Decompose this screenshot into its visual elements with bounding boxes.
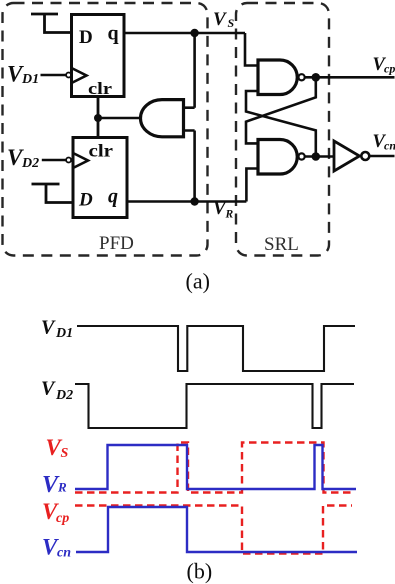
svg-text:D1: D1 xyxy=(21,72,39,87)
svg-text:clr: clr xyxy=(88,79,112,98)
svg-text:R: R xyxy=(225,209,234,221)
svg-text:V: V xyxy=(213,9,227,30)
svg-text:clr: clr xyxy=(89,141,114,161)
svg-text:(b): (b) xyxy=(187,559,213,584)
svg-text:D: D xyxy=(78,190,93,211)
svg-text:D: D xyxy=(79,27,93,48)
svg-text:cp: cp xyxy=(384,62,395,76)
svg-text:D1: D1 xyxy=(55,326,73,341)
svg-text:D2: D2 xyxy=(21,156,39,171)
svg-text:V: V xyxy=(41,316,56,338)
svg-text:V: V xyxy=(41,378,56,400)
svg-text:PFD: PFD xyxy=(99,233,134,254)
svg-text:SRL: SRL xyxy=(264,234,299,255)
svg-text:cn: cn xyxy=(57,546,71,561)
svg-text:S: S xyxy=(228,16,235,30)
svg-text:R: R xyxy=(57,480,67,495)
svg-text:q: q xyxy=(108,186,118,208)
svg-text:cn: cn xyxy=(384,139,395,153)
svg-text:S: S xyxy=(61,446,69,461)
svg-text:q: q xyxy=(108,23,119,45)
svg-text:D2: D2 xyxy=(55,388,73,403)
svg-text:(a): (a) xyxy=(186,269,210,294)
svg-text:cp: cp xyxy=(56,511,69,526)
